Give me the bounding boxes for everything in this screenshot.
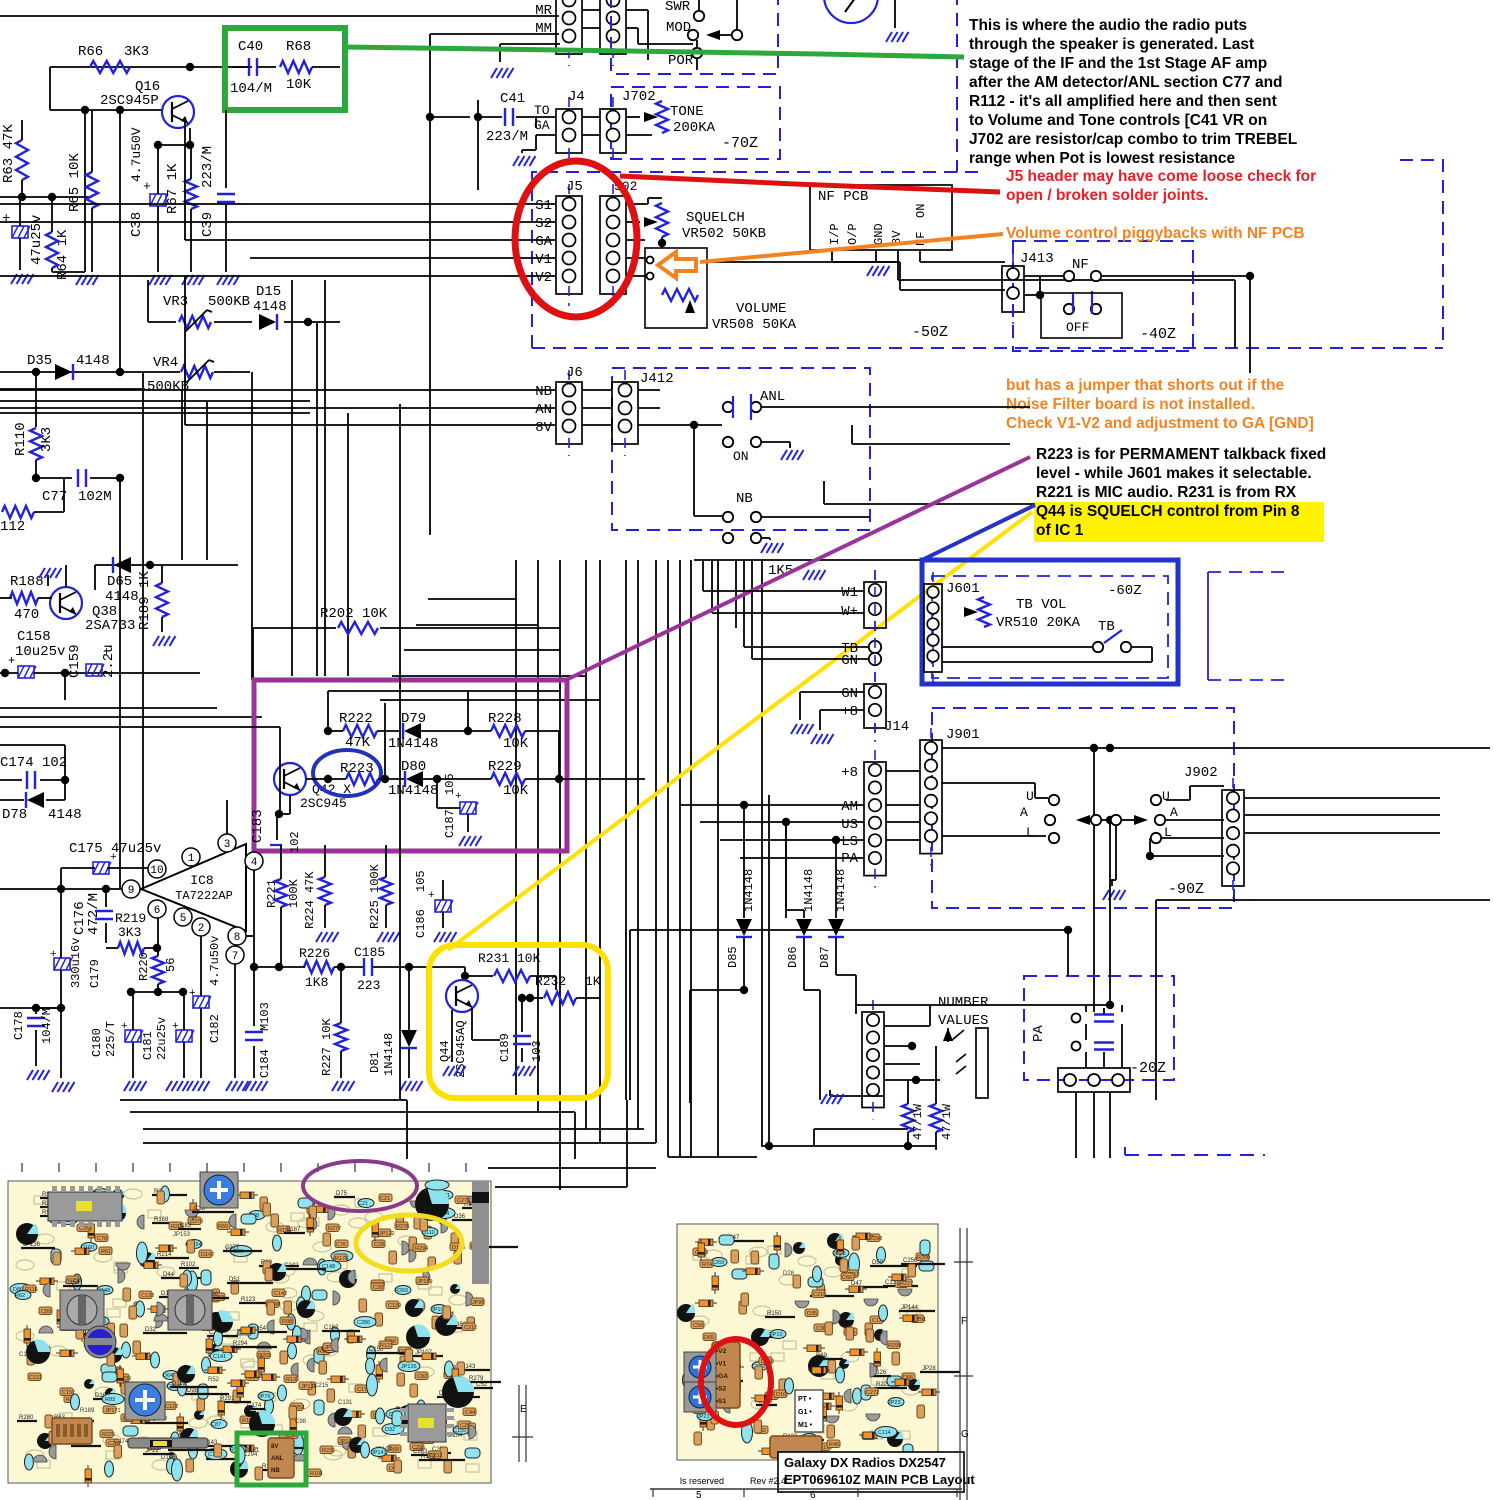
svg-text:5: 5 [180, 913, 187, 925]
bus right bends [703, 560, 752, 659]
svg-text:223/M: 223/M [200, 146, 216, 188]
svg-text:R225 100K: R225 100K [368, 863, 382, 929]
svg-text:J902: J902 [1184, 765, 1218, 781]
svg-text:JP132: JP132 [301, 1384, 317, 1390]
wire j902 right [1244, 798, 1440, 833]
label POR [668, 53, 694, 69]
label V1 [535, 252, 552, 268]
label L1s [1026, 825, 1034, 840]
svg-text:R52: R52 [208, 1377, 220, 1383]
svg-text:R68: R68 [286, 39, 311, 55]
wire 8v right [898, 280, 1235, 348]
label GN2 [841, 686, 858, 702]
bus bottom h4 [668, 1156, 757, 1158]
pcb left C21 [26, 1339, 50, 1364]
svg-text:D51: D51 [229, 1277, 241, 1283]
svg-text:22u25v: 22u25v [155, 1017, 169, 1060]
capacitor C175 [61, 841, 161, 888]
svg-text:C184: C184 [258, 1049, 272, 1078]
svg-text:R189 1K: R189 1K [137, 571, 153, 630]
svg-text:C82: C82 [417, 1374, 427, 1380]
svg-text:Check V1-V2 and adjustment to: Check V1-V2 and adjustment to GA [GND] [1006, 415, 1314, 432]
ground g28 [821, 1094, 844, 1104]
wire ual gnd [1110, 826, 1116, 886]
svg-text:but has a jumper that shorts o: but has a jumper that shorts out if the [1006, 377, 1285, 394]
wire tb sw [942, 647, 1152, 662]
bus bottom h3 [143, 1142, 656, 1144]
ground g21 [434, 932, 457, 942]
capacitor C187 [437, 773, 478, 838]
svg-text:GND: GND [872, 223, 886, 245]
svg-text:R173: R173 [421, 1454, 436, 1460]
frame E [512, 1385, 533, 1462]
vertical bus x325 [324, 280, 326, 676]
label S2 [535, 216, 552, 232]
dashed box J413 [1013, 241, 1193, 351]
svg-text:+: + [2, 211, 10, 227]
svg-text:NF PCB: NF PCB [818, 189, 868, 205]
svg-text:E: E [520, 1404, 527, 1415]
svg-text:JP122: JP122 [379, 1231, 395, 1237]
bus bottom h2 [143, 1128, 644, 1130]
svg-text:C28: C28 [373, 1285, 383, 1291]
label U1s [1026, 789, 1034, 804]
svg-text:R61: R61 [101, 1249, 111, 1255]
highlight red ellipse pcb [701, 1339, 771, 1425]
svg-text:C114: C114 [878, 1430, 891, 1436]
svg-text:C286: C286 [357, 1320, 370, 1326]
svg-text:1N4148: 1N4148 [388, 736, 438, 752]
capacitor C176 [72, 889, 113, 943]
label AM [841, 799, 858, 815]
svg-text:R69: R69 [816, 1353, 828, 1359]
svg-text:J702: J702 [622, 89, 656, 105]
svg-text:R298: R298 [869, 1236, 882, 1242]
wire Q16 base [50, 67, 162, 372]
diode D78 [0, 780, 82, 823]
svg-text:US: US [841, 817, 858, 833]
pcb left bar [128, 1438, 208, 1448]
svg-text:R101: R101 [310, 1471, 323, 1477]
svg-text:4148: 4148 [48, 807, 82, 823]
header J902 [1184, 765, 1244, 898]
wire row992 [127, 988, 187, 996]
label VR508 [712, 317, 797, 333]
frame FG [954, 1228, 973, 1500]
svg-text:J14: J14 [884, 719, 909, 735]
label -50Z [912, 324, 948, 341]
svg-text:102M: 102M [78, 489, 112, 505]
svg-text:C215: C215 [813, 1292, 826, 1298]
header J601 [924, 572, 942, 684]
svg-text:10: 10 [150, 865, 163, 877]
highlight purple box [254, 680, 567, 851]
svg-text:R221: R221 [265, 879, 279, 908]
pcb left C304 [415, 1180, 449, 1221]
ground g27 [1103, 890, 1126, 900]
label +8b [841, 765, 858, 781]
label NF ON [914, 204, 928, 246]
svg-text:IC8: IC8 [190, 873, 213, 888]
svg-text:C41: C41 [500, 91, 525, 107]
pcb left C152 [442, 1376, 474, 1408]
svg-text:47/1W: 47/1W [940, 1103, 954, 1140]
pcb right hdr2 [770, 1436, 822, 1458]
resistor R229 [437, 759, 645, 799]
svg-text:•V1: •V1 [716, 1361, 727, 1368]
resistor R222 [324, 711, 399, 751]
highlight red ellipse [515, 161, 637, 317]
svg-text:EPT069610Z MAIN PCB Layout: EPT069610Z MAIN PCB Layout [784, 1472, 975, 1487]
svg-text:C186: C186 [414, 909, 428, 938]
svg-text:C182: C182 [208, 1014, 222, 1043]
svg-text:D87: D87 [818, 946, 832, 968]
header GN8 [864, 672, 886, 740]
svg-text:+: + [103, 645, 110, 659]
svg-text:C162: C162 [324, 1325, 339, 1331]
capacitor C189 [472, 994, 544, 1062]
svg-text:R279: R279 [469, 1376, 484, 1382]
pcb right header J5p [712, 1342, 740, 1408]
dashed box J412 [612, 368, 870, 530]
label NUMBER [938, 995, 989, 1011]
svg-text:G: G [961, 1429, 969, 1440]
label L2s [1164, 825, 1172, 840]
svg-text:+: + [8, 654, 15, 668]
svg-text:S2: S2 [535, 216, 552, 232]
capacitor C186 [414, 870, 453, 938]
svg-text:R225: R225 [102, 1432, 115, 1438]
callout blue line [922, 505, 1035, 560]
svg-text:470: 470 [14, 607, 39, 623]
header J3a [556, 0, 582, 66]
capacitor C180 [90, 992, 143, 1078]
svg-text:5: 5 [696, 1490, 702, 1500]
svg-text:JP171: JP171 [105, 1408, 121, 1414]
ground g20 [377, 932, 400, 942]
label LS [841, 834, 858, 850]
svg-text:R223 is for PERMAMENT talkback: R223 is for PERMAMENT talkback fixed [1036, 446, 1326, 463]
wire pin3 up [227, 800, 254, 936]
resistor R202 [253, 606, 560, 700]
svg-text:47/1W: 47/1W [911, 1103, 925, 1140]
pcb left board [8, 1181, 518, 1487]
svg-text:level - while J601 makes it se: level - while J601 makes it selectable. [1036, 465, 1312, 482]
header J6 [556, 365, 583, 456]
resistor R188 [0, 574, 44, 623]
switch SWR [694, 0, 704, 21]
svg-text:ANL: ANL [271, 1456, 284, 1462]
svg-text:D50: D50 [872, 1260, 884, 1266]
pcb left vr1 [200, 1172, 238, 1208]
svg-text:C174: C174 [114, 1439, 129, 1445]
svg-text:-60Z: -60Z [1108, 583, 1142, 599]
svg-text:R135: R135 [286, 1377, 299, 1383]
svg-text:6: 6 [154, 905, 161, 917]
wire R66 row [50, 63, 252, 71]
svg-text:3: 3 [224, 839, 231, 851]
ground g6 [217, 275, 240, 285]
dashed box -50Z [532, 160, 1443, 348]
diode D86 [786, 822, 816, 990]
svg-text:JP23: JP23 [888, 1400, 901, 1406]
resistor R189 [137, 565, 168, 632]
capacitor C178 [12, 1004, 61, 1066]
svg-text:ls reserved: ls reserved [680, 1476, 724, 1486]
wire ual1 [942, 783, 1114, 880]
label S1 [535, 198, 552, 214]
svg-text:JP10: JP10 [770, 1332, 783, 1338]
svg-text:200KA: 200KA [673, 120, 716, 136]
svg-text:U: U [1026, 789, 1034, 804]
highlight green box [225, 28, 345, 110]
svg-text:Volume control piggybacks with: Volume control piggybacks with NF PCB [1006, 225, 1305, 242]
resistor R232 [526, 974, 601, 1004]
resistor R65 [67, 110, 98, 272]
header J502 [600, 179, 637, 306]
dashed vline right of POR [956, 0, 958, 172]
ground g13 [781, 450, 804, 460]
wire feeds MR [0, 16, 559, 121]
svg-text:R299: R299 [888, 1343, 901, 1349]
svg-text:225/T: 225/T [104, 1021, 118, 1057]
svg-text:R277: R277 [328, 1226, 341, 1232]
svg-text:NB: NB [535, 384, 552, 400]
svg-text:D142: D142 [201, 1252, 214, 1258]
svg-text:C50: C50 [693, 1323, 703, 1329]
wire mid right [630, 900, 1490, 1100]
ground g3 [76, 268, 99, 285]
label V2 [535, 270, 552, 286]
svg-text:1N4148: 1N4148 [802, 869, 816, 912]
vertical bus x292 [291, 280, 293, 676]
svg-text:C187: C187 [286, 1227, 301, 1233]
svg-text:R121: R121 [380, 1343, 393, 1349]
resistor R64 [46, 197, 85, 280]
bus vert x143 [142, 372, 144, 889]
svg-text:Q44: Q44 [438, 1040, 452, 1062]
svg-text:SQUELCH: SQUELCH [686, 210, 745, 226]
svg-text:223/M: 223/M [486, 129, 528, 145]
svg-text:D16: D16 [776, 1392, 786, 1398]
svg-text:JP141: JP141 [371, 1450, 387, 1456]
dashed box J601 inner [932, 576, 1168, 678]
ground g17 [27, 1070, 50, 1080]
switch POR [638, 40, 702, 70]
svg-text:D78: D78 [2, 807, 27, 823]
wire VR3 row [148, 280, 340, 326]
switch vol [647, 257, 654, 280]
ground g7 [39, 568, 62, 586]
switch tb gn circ [869, 641, 881, 665]
switch UAL1 [1045, 795, 1101, 843]
label I/P [828, 223, 842, 245]
svg-text:D36: D36 [454, 1214, 466, 1220]
svg-text:VR502 50KB: VR502 50KB [682, 226, 766, 242]
svg-text:R231 10K: R231 10K [478, 951, 541, 966]
label O/P [846, 223, 860, 245]
pot VR4 [120, 355, 250, 395]
ground g26 [513, 1066, 536, 1076]
svg-text:R65 10K: R65 10K [67, 153, 83, 212]
svg-text:C157: C157 [62, 1390, 75, 1396]
svg-text:This is where the audio the ra: This is where the audio the radio puts [969, 17, 1247, 34]
svg-text:D64: D64 [163, 1373, 173, 1379]
wire mid feeds [0, 708, 262, 717]
label PA [841, 851, 858, 867]
wire D35 row [0, 368, 124, 376]
svg-text:C66: C66 [842, 1275, 852, 1281]
resistor R221 [265, 845, 301, 967]
svg-text:+8: +8 [841, 704, 858, 720]
note orange1 [1006, 225, 1305, 242]
wire s-rows [0, 117, 556, 276]
svg-text:-40Z: -40Z [1140, 326, 1176, 343]
svg-text:D32: D32 [385, 1427, 395, 1433]
wire 1005 row [856, 1001, 1114, 1009]
svg-text:R83: R83 [105, 1397, 115, 1403]
label MR [535, 3, 552, 19]
wire tone row [522, 117, 652, 150]
pot VR502 [656, 203, 668, 248]
svg-text:C174: C174 [247, 1403, 262, 1409]
svg-text:R280: R280 [19, 1415, 34, 1421]
ground g11 [513, 150, 536, 166]
svg-text:S1: S1 [535, 198, 552, 214]
svg-text:M1 •: M1 • [798, 1422, 813, 1429]
wire 967 row [430, 967, 556, 990]
svg-text:range when Pot is lowest resis: range when Pot is lowest resistance [969, 150, 1236, 167]
svg-text:GN: GN [841, 686, 858, 702]
svg-text:C256: C256 [903, 1258, 918, 1264]
svg-text:Noise Filter board is not inst: Noise Filter board is not installed. [1006, 396, 1255, 413]
svg-text:PT •: PT • [798, 1396, 812, 1403]
switch TB [1093, 630, 1131, 652]
bus vert x400 [399, 404, 401, 1100]
capacitor C183 [250, 795, 302, 853]
pot VR3 [163, 294, 250, 332]
svg-text:•S1: •S1 [716, 1398, 727, 1405]
svg-text:104/M: 104/M [230, 81, 272, 97]
svg-text:C38: C38 [129, 212, 145, 237]
svg-text:TB VOL: TB VOL [1016, 597, 1066, 613]
diode D15 [253, 284, 287, 330]
capacitor C159 [65, 644, 117, 700]
svg-text:10K: 10K [503, 783, 529, 799]
svg-text:1K: 1K [585, 974, 601, 989]
svg-text:C28: C28 [374, 1242, 384, 1248]
svg-text:R74: R74 [702, 1262, 712, 1268]
svg-text:D75: D75 [336, 1191, 348, 1197]
wire right col [1109, 880, 1111, 1005]
svg-text:MR: MR [535, 3, 552, 19]
label J601 [946, 581, 980, 597]
switch MOD [688, 0, 742, 40]
svg-text:C242: C242 [284, 1263, 299, 1269]
wire vol right [707, 262, 1005, 290]
resistor R220 [137, 918, 178, 996]
callout green line [345, 47, 964, 57]
bus verticals [516, 560, 762, 1190]
svg-text:D81: D81 [368, 1051, 382, 1073]
svg-text:2SC945: 2SC945 [300, 796, 347, 811]
ground row ic8 [52, 1081, 268, 1092]
svg-text:R202 10K: R202 10K [320, 606, 388, 622]
label J901 [946, 727, 980, 743]
callout purple line [566, 457, 1030, 680]
svg-text:R161: R161 [245, 1448, 260, 1454]
svg-text:C159: C159 [67, 644, 83, 678]
svg-text:after the AM detector/ANL sect: after the AM detector/ANL section C77 an… [969, 74, 1283, 91]
svg-text:Rev #2.4: Rev #2.4 [750, 1476, 786, 1486]
svg-text:C272: C272 [866, 1390, 879, 1396]
svg-text:VR4: VR4 [153, 355, 178, 371]
note black2 [1036, 446, 1326, 501]
label NF PCB [818, 189, 868, 205]
svg-text:R102: R102 [181, 1262, 196, 1268]
dashed box -70Z [611, 87, 780, 159]
wire j6 rows [0, 276, 556, 425]
svg-text:R62: R62 [15, 1293, 25, 1299]
wire pin4 col [250, 870, 283, 971]
svg-text:D106: D106 [161, 1455, 176, 1461]
svg-text:R67 1K: R67 1K [165, 163, 181, 214]
resistor R231 [461, 951, 556, 982]
highlight yellow box [429, 945, 608, 1098]
dashed box J901 [932, 708, 1234, 908]
header J702 [600, 89, 656, 165]
svg-text:R123: R123 [241, 1297, 256, 1303]
svg-text:+8: +8 [841, 765, 858, 781]
svg-text:open / broken solder joints.: open / broken solder joints. [1006, 187, 1208, 204]
svg-text:W+: W+ [841, 604, 858, 620]
svg-text:R188: R188 [10, 574, 44, 590]
svg-text:W1: W1 [841, 585, 858, 601]
label -60Z [1108, 583, 1142, 599]
dashed box PA [1024, 976, 1174, 1080]
svg-text:R294: R294 [415, 1246, 428, 1252]
svg-text:105: 105 [414, 870, 428, 892]
pcb left ic1 [48, 1186, 122, 1227]
svg-text:R176: R176 [335, 1256, 348, 1262]
ground g16 [459, 836, 482, 846]
svg-text:R98: R98 [282, 1319, 292, 1325]
bus vert x627 [626, 1100, 628, 1187]
pcb left C75 [211, 1310, 233, 1333]
svg-text:4148: 4148 [253, 299, 287, 315]
capacitor C181 [141, 992, 194, 1078]
svg-text:O/P: O/P [846, 223, 860, 245]
switch NB [723, 512, 761, 543]
capacitor C182 [189, 936, 222, 1078]
wire pin9 row [0, 885, 122, 893]
svg-text:C270: C270 [190, 1219, 203, 1225]
resistor R223 [306, 761, 404, 785]
svg-text:R220: R220 [137, 952, 151, 981]
bus left fan [380, 599, 600, 700]
wire w1 [703, 591, 864, 613]
node C39 top [162, 109, 252, 111]
capacitor C41 [474, 91, 536, 190]
resistor R66 [78, 44, 149, 73]
svg-text:J413: J413 [1020, 251, 1054, 267]
bus bottom h5 [488, 1167, 656, 1169]
svg-text:2SC945P: 2SC945P [100, 93, 159, 109]
svg-text:R235: R235 [322, 1448, 335, 1454]
ground g9 [491, 44, 560, 78]
svg-text:A: A [1020, 805, 1028, 820]
svg-text:J6: J6 [566, 365, 583, 381]
